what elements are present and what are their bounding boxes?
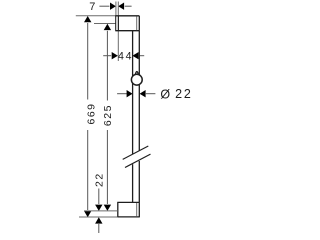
top bracket seam xyxy=(136,16,138,30)
break symbol diagonal 1 xyxy=(123,146,149,159)
rail tube right edge upper xyxy=(138,31,140,151)
dim line 44 right xyxy=(139,55,144,57)
svg-text:2: 2 xyxy=(184,87,191,101)
dim line 44 left xyxy=(103,55,111,57)
extension line top 625 xyxy=(94,23,116,25)
bottom bracket seam xyxy=(136,203,138,216)
extension line top 669 xyxy=(76,15,116,17)
dim line 22 lower tail xyxy=(98,224,100,233)
arrow 44 right xyxy=(132,52,138,59)
dim line 22 upper xyxy=(98,189,100,205)
arrow 22 down xyxy=(95,205,102,211)
extension line 7 right / 44 left reference xyxy=(117,2,119,62)
dim line 7 right xyxy=(125,5,132,7)
rail tube left edge lower xyxy=(132,164,134,202)
bottom wall bracket xyxy=(117,202,140,217)
top wall bracket xyxy=(115,15,139,17)
arrow 7 left xyxy=(110,3,116,10)
arrow 44 left xyxy=(112,52,118,59)
svg-text:4: 4 xyxy=(118,51,124,63)
arrow 625 bottom xyxy=(104,205,111,211)
dim line 7 left xyxy=(99,5,109,7)
dim line 669 lower xyxy=(87,130,89,210)
slider ball xyxy=(131,74,142,85)
extension line bottom 669 xyxy=(79,216,117,218)
svg-text:2: 2 xyxy=(175,87,182,101)
dim line 625 lower xyxy=(106,130,108,204)
svg-text:625: 625 xyxy=(102,104,114,126)
dim line diameter 22 right xyxy=(145,93,155,95)
rail tube right edge lower xyxy=(138,161,140,203)
arrow 669 top xyxy=(84,16,91,22)
dim line 625 upper xyxy=(106,31,108,101)
svg-text:4: 4 xyxy=(126,51,132,63)
dim line 669 upper xyxy=(87,23,89,100)
svg-text:669: 669 xyxy=(85,102,97,124)
rail tube left edge upper xyxy=(132,31,134,154)
arrow 625 top xyxy=(104,24,111,30)
arrow 669 bottom xyxy=(84,211,91,217)
break symbol diagonal 2 xyxy=(125,154,151,167)
arrow diameter 22 right xyxy=(140,90,146,97)
arrow diameter 22 left xyxy=(127,90,133,97)
arrow 7 right xyxy=(118,3,124,10)
slider nub xyxy=(135,72,139,76)
svg-text:Ø: Ø xyxy=(160,88,170,102)
dim line diameter 22 left xyxy=(117,93,127,95)
svg-text:7: 7 xyxy=(89,1,95,13)
extension line 7 left xyxy=(115,2,117,16)
extension line bottom 625 xyxy=(84,210,118,212)
svg-text:22: 22 xyxy=(93,172,105,187)
arrow 22 up xyxy=(95,217,102,223)
